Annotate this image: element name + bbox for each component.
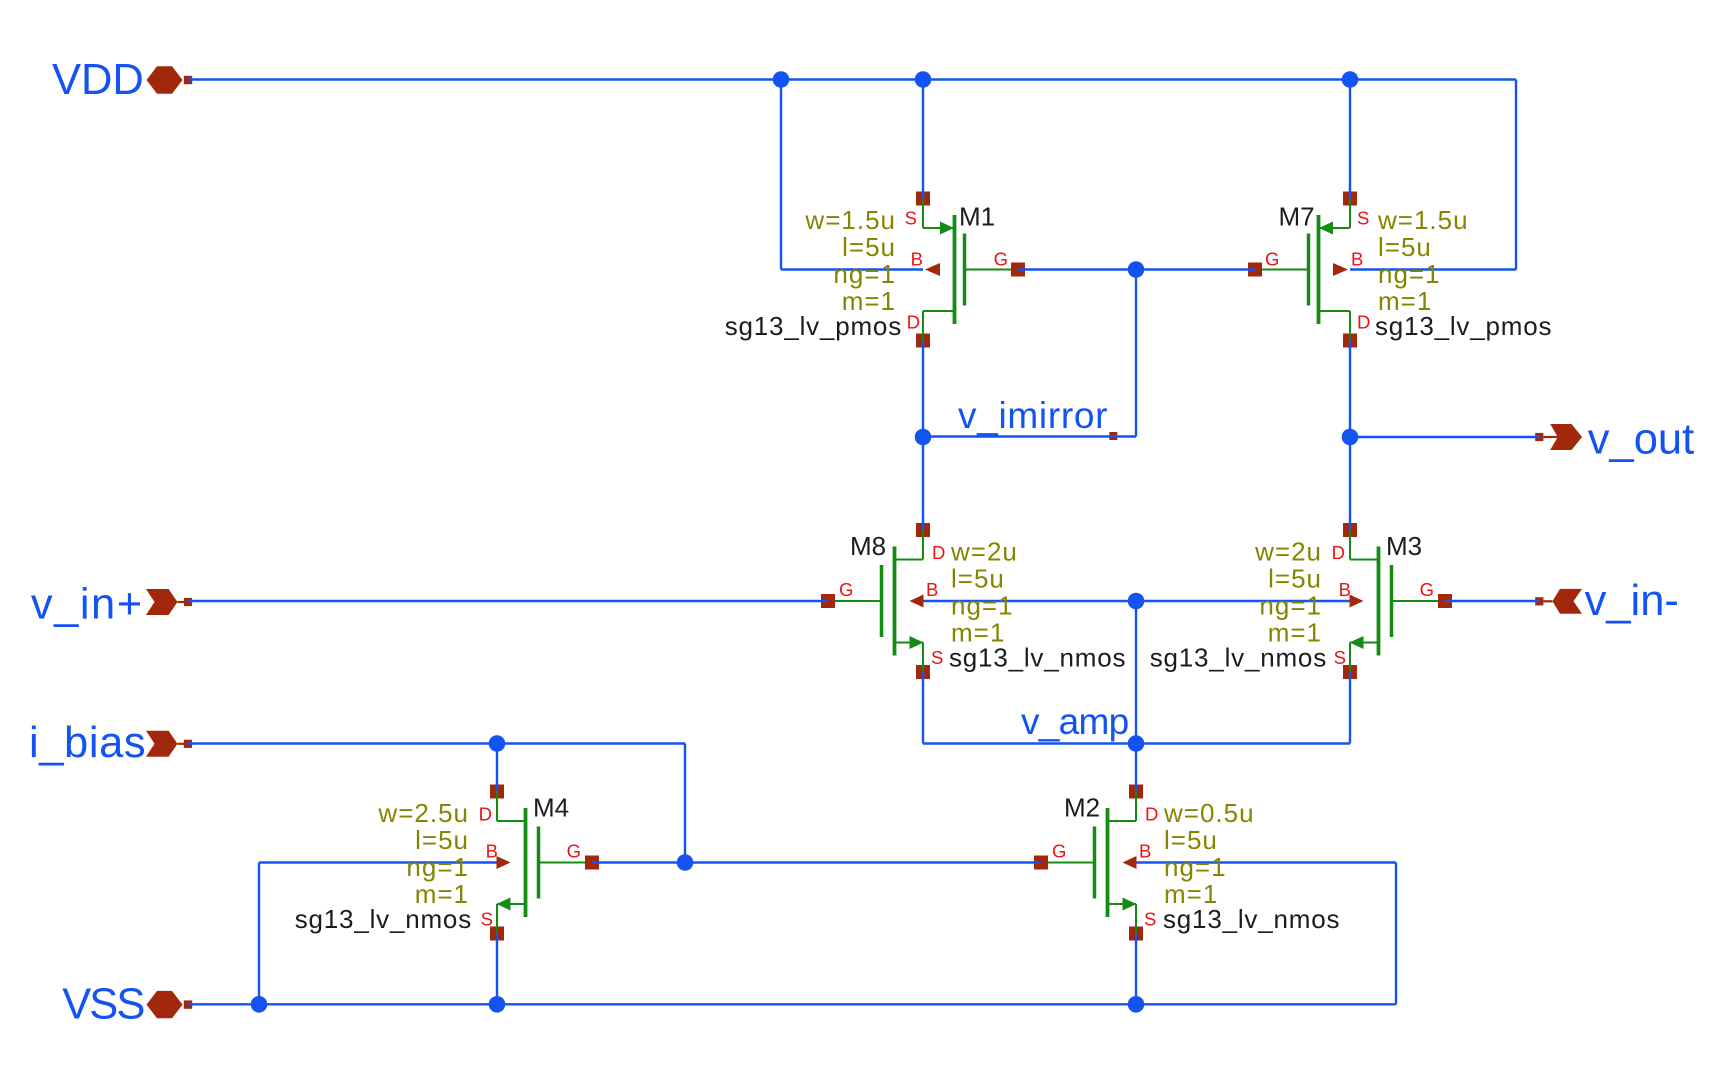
svg-text:G: G <box>1420 579 1434 600</box>
svg-text:v_in+: v_in+ <box>31 581 144 629</box>
svg-text:l=5u: l=5u <box>1378 232 1432 262</box>
svg-text:l=5u: l=5u <box>1164 825 1218 855</box>
svg-text:v_out: v_out <box>1588 415 1694 463</box>
svg-text:S: S <box>481 909 493 930</box>
svg-text:G: G <box>839 579 853 600</box>
svg-text:ng=1: ng=1 <box>833 259 896 289</box>
svg-text:S: S <box>931 647 943 668</box>
svg-text:sg13_lv_nmos: sg13_lv_nmos <box>949 643 1126 673</box>
svg-text:w=1.5u: w=1.5u <box>804 205 896 235</box>
svg-text:l=5u: l=5u <box>951 564 1005 594</box>
svg-text:w=2u: w=2u <box>950 537 1018 567</box>
svg-text:D: D <box>1357 312 1370 333</box>
svg-text:D: D <box>907 312 920 333</box>
svg-text:w=0.5u: w=0.5u <box>1163 798 1255 828</box>
svg-text:ng=1: ng=1 <box>1259 591 1322 621</box>
svg-text:M3: M3 <box>1386 531 1422 561</box>
svg-text:B: B <box>486 841 498 862</box>
svg-text:sg13_lv_pmos: sg13_lv_pmos <box>1375 311 1552 341</box>
svg-text:ng=1: ng=1 <box>1164 852 1227 882</box>
svg-text:S: S <box>1334 647 1346 668</box>
svg-text:G: G <box>1052 841 1066 862</box>
svg-text:sg13_lv_nmos: sg13_lv_nmos <box>1150 643 1327 673</box>
svg-text:B: B <box>1351 249 1363 270</box>
svg-text:v_imirror: v_imirror <box>958 395 1108 436</box>
svg-text:D: D <box>1332 542 1345 563</box>
svg-text:M7: M7 <box>1279 202 1315 232</box>
svg-text:w=2u: w=2u <box>1254 537 1322 567</box>
svg-text:S: S <box>1144 909 1156 930</box>
svg-text:ng=1: ng=1 <box>1378 259 1441 289</box>
svg-text:i_bias: i_bias <box>29 719 146 767</box>
svg-text:ng=1: ng=1 <box>406 852 469 882</box>
svg-text:VDD: VDD <box>52 56 144 104</box>
svg-text:v_in-: v_in- <box>1585 577 1679 625</box>
svg-text:D: D <box>932 542 945 563</box>
svg-text:l=5u: l=5u <box>1268 564 1322 594</box>
svg-text:sg13_lv_pmos: sg13_lv_pmos <box>725 311 902 341</box>
svg-text:B: B <box>1339 579 1351 600</box>
svg-text:sg13_lv_nmos: sg13_lv_nmos <box>295 904 472 934</box>
svg-text:M1: M1 <box>959 202 995 232</box>
svg-text:G: G <box>567 841 581 862</box>
svg-text:B: B <box>1139 841 1151 862</box>
svg-text:S: S <box>905 208 917 229</box>
svg-text:l=5u: l=5u <box>842 232 896 262</box>
svg-text:ng=1: ng=1 <box>951 591 1014 621</box>
svg-text:w=2.5u: w=2.5u <box>377 798 469 828</box>
svg-text:G: G <box>994 249 1008 270</box>
svg-text:l=5u: l=5u <box>415 825 469 855</box>
svg-text:S: S <box>1357 208 1369 229</box>
svg-text:G: G <box>1265 249 1279 270</box>
svg-text:VSS: VSS <box>62 981 144 1029</box>
svg-text:M2: M2 <box>1064 793 1100 823</box>
svg-text:M4: M4 <box>533 793 569 823</box>
svg-text:sg13_lv_nmos: sg13_lv_nmos <box>1163 904 1340 934</box>
svg-text:D: D <box>1145 804 1158 825</box>
svg-text:M8: M8 <box>850 531 886 561</box>
svg-text:D: D <box>479 804 492 825</box>
svg-text:v_amp: v_amp <box>1021 701 1129 742</box>
svg-text:w=1.5u: w=1.5u <box>1377 205 1469 235</box>
svg-text:B: B <box>926 579 938 600</box>
svg-text:B: B <box>911 249 923 270</box>
